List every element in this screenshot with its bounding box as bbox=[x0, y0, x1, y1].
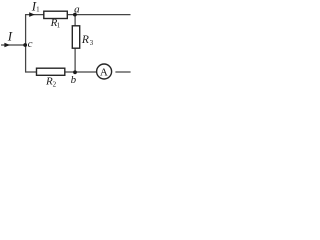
svg-text:A: A bbox=[100, 67, 108, 79]
arrow current I1 bbox=[29, 12, 35, 17]
resistor R3 bbox=[72, 26, 79, 48]
svg-text:a: a bbox=[74, 4, 80, 16]
wire middle branch vertical bbox=[74, 15, 76, 73]
svg-text:b: b bbox=[71, 74, 77, 86]
resistor R2 bbox=[37, 68, 65, 75]
svg-text:3: 3 bbox=[90, 39, 94, 47]
ammeter A bbox=[97, 64, 112, 79]
svg-text:c: c bbox=[28, 38, 33, 50]
svg-text:R: R bbox=[81, 34, 89, 46]
wire bottom rail left of ammeter bbox=[26, 71, 97, 73]
svg-text:1: 1 bbox=[36, 6, 40, 14]
wire left rail bbox=[25, 14, 27, 73]
node a bbox=[73, 13, 77, 17]
arrow current I bbox=[4, 43, 10, 48]
wire top rail bbox=[26, 14, 131, 16]
wire input left with current I bbox=[1, 44, 26, 46]
node c bbox=[23, 43, 27, 47]
resistor R1 bbox=[44, 11, 68, 18]
svg-text:2: 2 bbox=[53, 81, 57, 89]
wire bottom rail right of ammeter bbox=[115, 71, 130, 73]
node b bbox=[73, 70, 77, 74]
svg-text:I: I bbox=[7, 29, 13, 44]
svg-text:1: 1 bbox=[57, 22, 61, 30]
